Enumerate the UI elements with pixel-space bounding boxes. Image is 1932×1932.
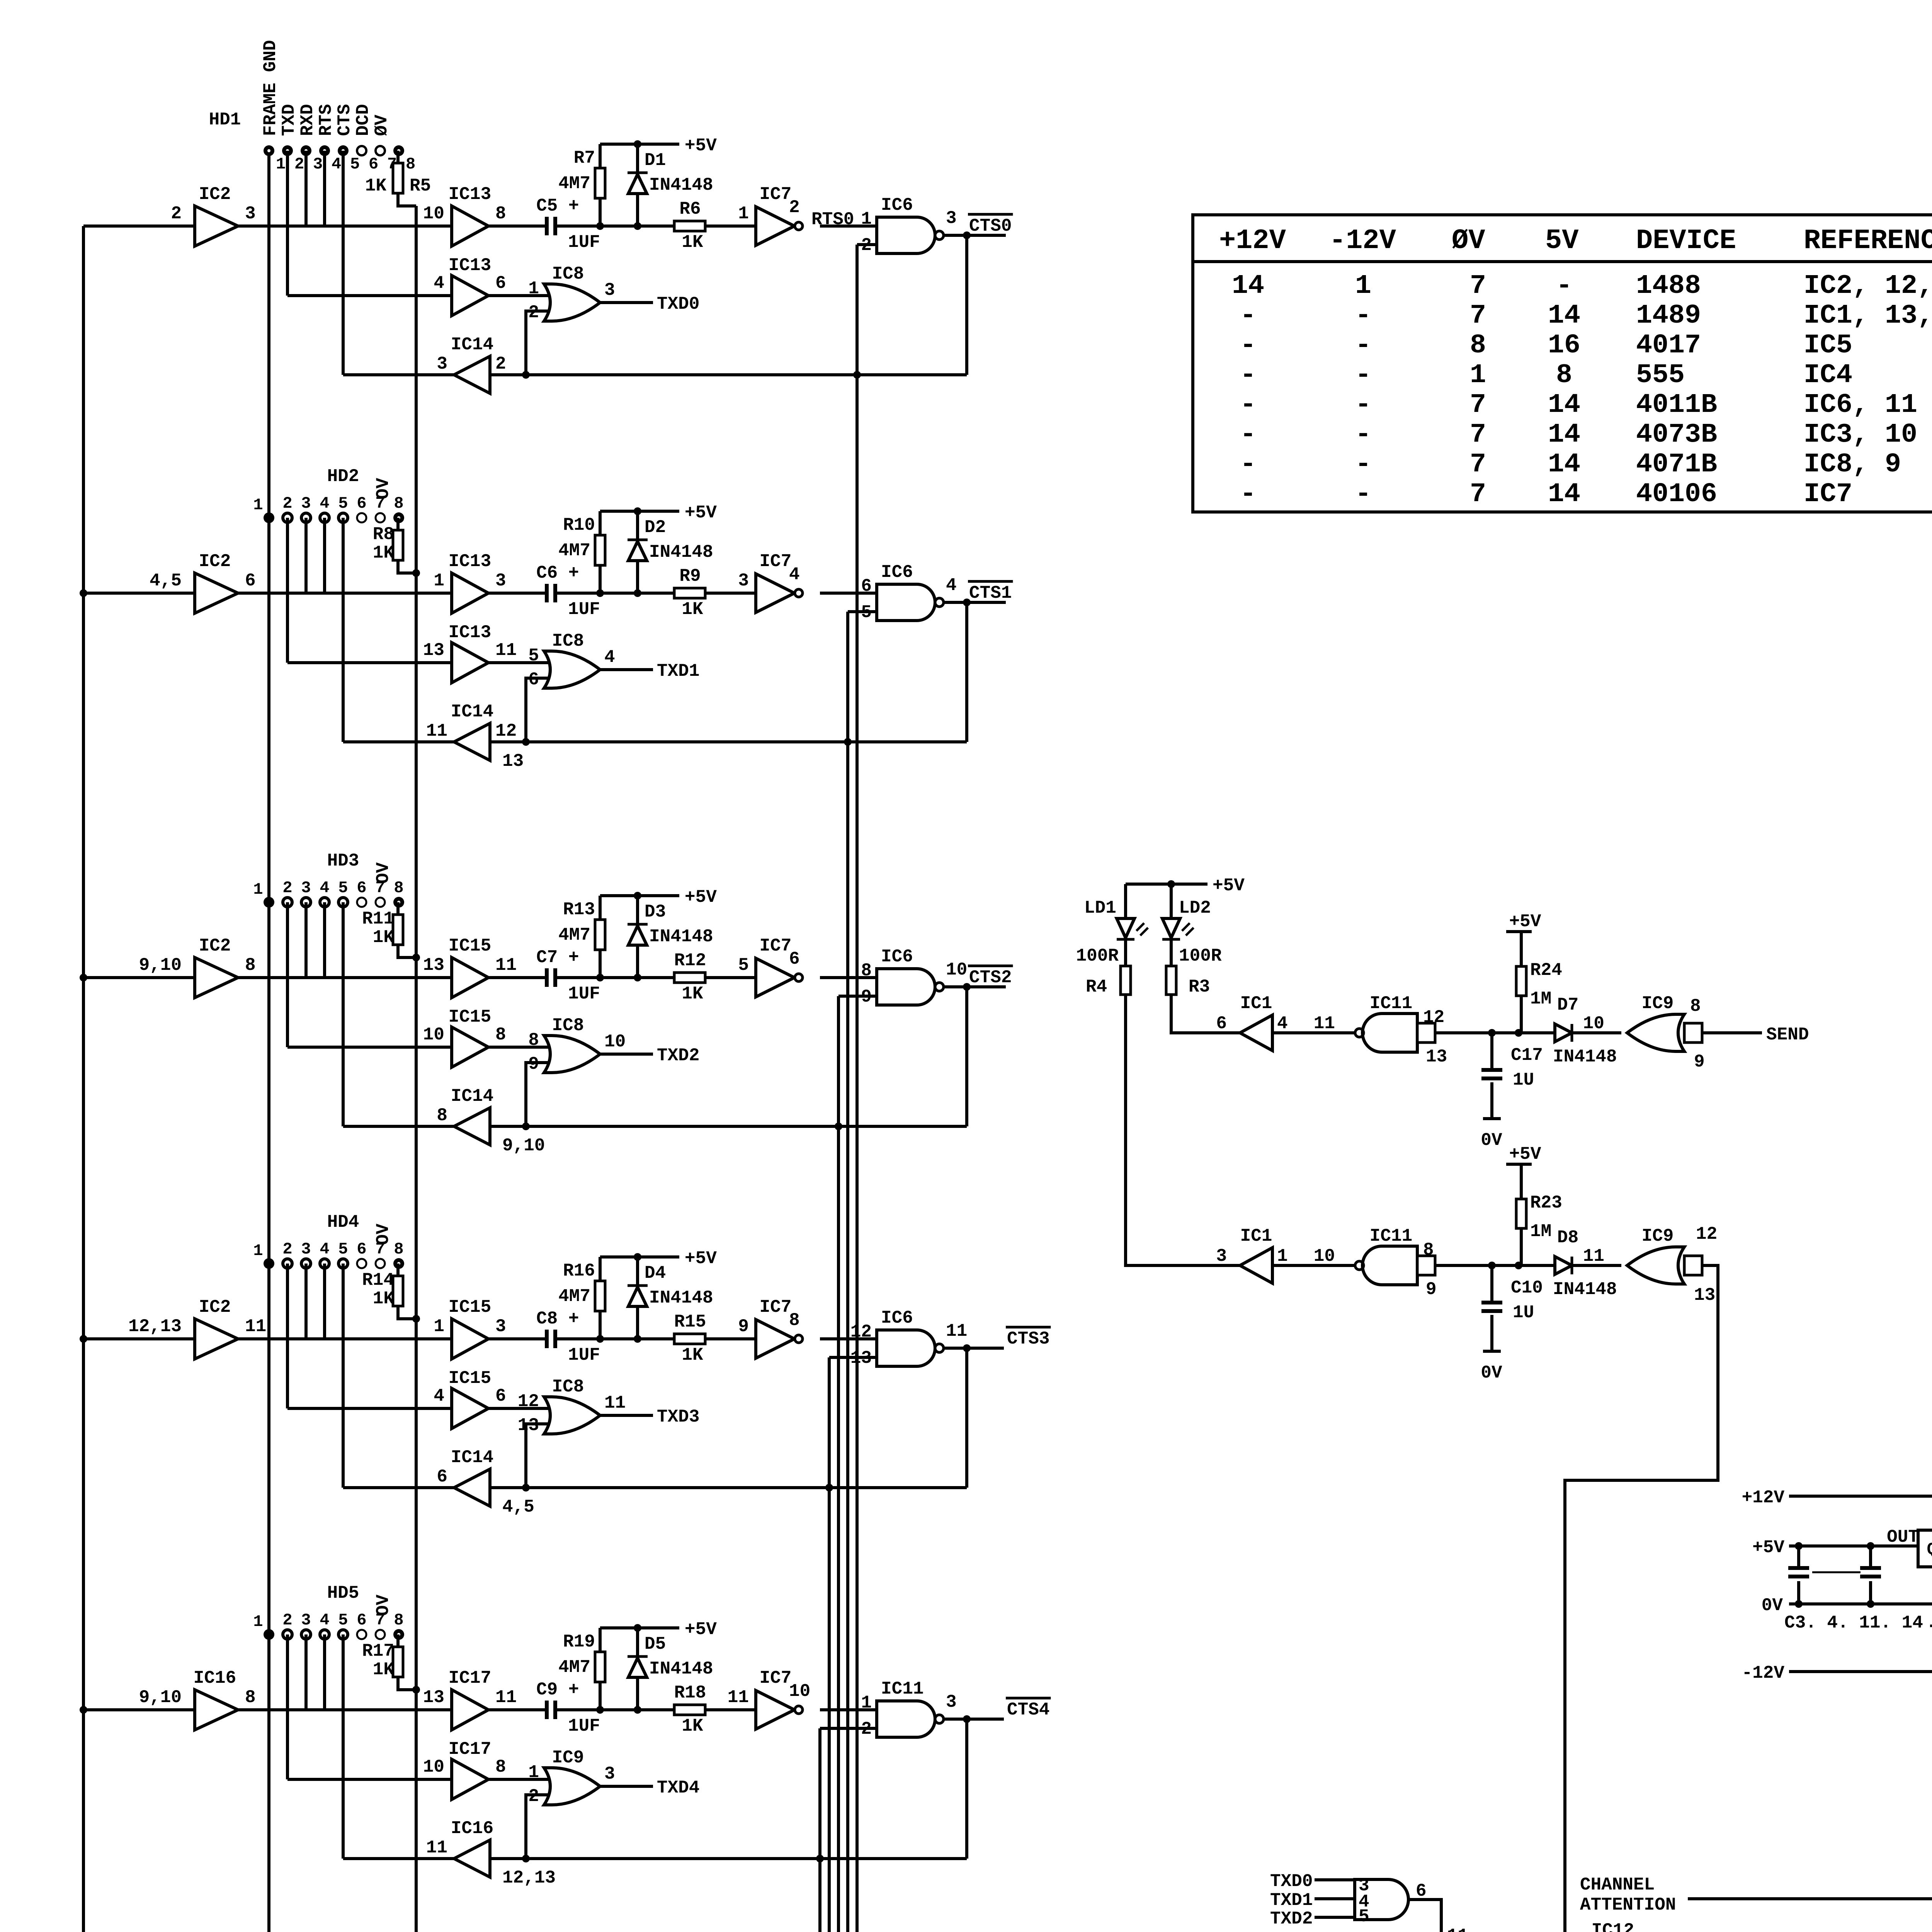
svg-text:+12V: +12V bbox=[1742, 1488, 1785, 1508]
svg-text:6: 6 bbox=[495, 273, 506, 293]
svg-text:D8: D8 bbox=[1557, 1228, 1578, 1248]
svg-text:100R: 100R bbox=[1179, 946, 1222, 966]
svg-text:IC17: IC17 bbox=[449, 1739, 491, 1759]
svg-text:3: 3 bbox=[1216, 1246, 1227, 1266]
svg-text:D2: D2 bbox=[645, 517, 666, 537]
svg-text:IC14: IC14 bbox=[451, 1086, 493, 1106]
svg-text:13: 13 bbox=[1694, 1285, 1715, 1305]
svg-text:R7: R7 bbox=[574, 148, 595, 168]
svg-text:9: 9 bbox=[1426, 1279, 1437, 1299]
svg-text:ØV: ØV bbox=[1452, 225, 1485, 257]
svg-text:1: 1 bbox=[1355, 271, 1371, 301]
svg-text:+5V: +5V bbox=[685, 1248, 717, 1269]
svg-text:R14: R14 bbox=[362, 1270, 394, 1290]
svg-text:+12V: +12V bbox=[1219, 225, 1286, 257]
svg-text:8: 8 bbox=[861, 961, 872, 981]
svg-text:LD1: LD1 bbox=[1084, 898, 1116, 918]
svg-text:IC3, 10: IC3, 10 bbox=[1804, 420, 1917, 450]
svg-text:11: 11 bbox=[728, 1687, 749, 1708]
svg-text:8: 8 bbox=[394, 494, 403, 513]
svg-text:HD1: HD1 bbox=[209, 110, 241, 130]
svg-text:-: - bbox=[1556, 271, 1572, 301]
svg-text:4073B: 4073B bbox=[1636, 420, 1717, 450]
svg-text:OUT: OUT bbox=[1887, 1527, 1919, 1547]
svg-text:DCD: DCD bbox=[353, 104, 373, 136]
svg-text:12: 12 bbox=[495, 721, 517, 741]
svg-text:4M7: 4M7 bbox=[558, 1286, 590, 1306]
svg-text:IC15: IC15 bbox=[449, 1297, 491, 1317]
svg-text:3: 3 bbox=[495, 1316, 506, 1337]
svg-text:5: 5 bbox=[338, 494, 348, 513]
svg-text:ØV: ØV bbox=[372, 114, 392, 136]
svg-text:2: 2 bbox=[282, 494, 292, 513]
svg-text:IC9: IC9 bbox=[1642, 993, 1674, 1014]
svg-text:TXD0: TXD0 bbox=[1270, 1871, 1313, 1891]
svg-text:1K: 1K bbox=[373, 1660, 395, 1680]
svg-text:3: 3 bbox=[301, 879, 311, 897]
svg-text:TXD2: TXD2 bbox=[657, 1046, 699, 1066]
svg-text:TXD3: TXD3 bbox=[657, 1407, 699, 1427]
svg-text:4: 4 bbox=[789, 565, 800, 585]
svg-text:IC16: IC16 bbox=[194, 1668, 236, 1688]
svg-text:6: 6 bbox=[357, 1240, 366, 1259]
svg-text:4: 4 bbox=[332, 155, 341, 173]
svg-text:R4: R4 bbox=[1086, 977, 1107, 997]
svg-text:2: 2 bbox=[282, 1611, 292, 1629]
svg-text:IC7: IC7 bbox=[760, 1297, 792, 1317]
svg-text:ATTENTION: ATTENTION bbox=[1580, 1895, 1676, 1915]
svg-text:1: 1 bbox=[861, 209, 872, 229]
svg-text:6: 6 bbox=[369, 155, 378, 173]
svg-text:8: 8 bbox=[394, 1611, 403, 1629]
svg-text:IC17: IC17 bbox=[449, 1668, 491, 1688]
svg-text:1: 1 bbox=[1470, 360, 1486, 391]
svg-text:R24: R24 bbox=[1530, 960, 1562, 980]
svg-text:R19: R19 bbox=[563, 1632, 595, 1652]
svg-text:8: 8 bbox=[1556, 360, 1572, 391]
svg-text:12: 12 bbox=[1696, 1224, 1717, 1244]
svg-text:7: 7 bbox=[1470, 301, 1486, 331]
svg-text:IC13: IC13 bbox=[449, 184, 491, 204]
svg-text:1: 1 bbox=[253, 880, 263, 899]
svg-text:7: 7 bbox=[1470, 271, 1486, 301]
svg-text:1UF: 1UF bbox=[568, 599, 600, 619]
svg-text:2: 2 bbox=[282, 1240, 292, 1259]
svg-text:SEND: SEND bbox=[1766, 1025, 1809, 1045]
svg-text:5: 5 bbox=[1359, 1906, 1369, 1927]
svg-text:10: 10 bbox=[789, 1681, 810, 1701]
svg-text:3: 3 bbox=[738, 571, 749, 591]
svg-text:1: 1 bbox=[253, 1242, 263, 1260]
svg-text:5: 5 bbox=[738, 955, 749, 975]
svg-text:11: 11 bbox=[1583, 1246, 1604, 1266]
svg-text:DEVICE: DEVICE bbox=[1636, 225, 1736, 257]
svg-text:1: 1 bbox=[1277, 1246, 1288, 1266]
svg-text:C8 +: C8 + bbox=[536, 1309, 579, 1329]
svg-text:IC8, 9: IC8, 9 bbox=[1804, 449, 1901, 480]
svg-text:D3: D3 bbox=[645, 902, 666, 922]
svg-text:R11: R11 bbox=[362, 909, 394, 929]
svg-text:IC6: IC6 bbox=[881, 562, 913, 582]
svg-text:REFERENCE: REFERENCE bbox=[1804, 225, 1932, 257]
svg-text:+5V: +5V bbox=[1752, 1537, 1784, 1558]
svg-text:4: 4 bbox=[320, 879, 329, 897]
svg-text:-: - bbox=[1240, 479, 1256, 510]
svg-text:4,5: 4,5 bbox=[502, 1497, 534, 1517]
svg-text:1K: 1K bbox=[373, 1289, 395, 1309]
svg-text:1M: 1M bbox=[1530, 1221, 1551, 1242]
svg-text:R17: R17 bbox=[362, 1641, 394, 1661]
svg-text:7: 7 bbox=[1470, 449, 1486, 480]
svg-text:9,10: 9,10 bbox=[139, 955, 182, 975]
svg-text:R18: R18 bbox=[674, 1683, 706, 1703]
svg-text:C9 +: C9 + bbox=[536, 1680, 579, 1700]
svg-text:IC12: IC12 bbox=[1592, 1920, 1634, 1932]
svg-text:5: 5 bbox=[338, 1611, 348, 1629]
svg-text:1M: 1M bbox=[1530, 989, 1551, 1009]
svg-text:2: 2 bbox=[171, 204, 182, 224]
svg-text:10: 10 bbox=[604, 1032, 626, 1052]
svg-text:3: 3 bbox=[946, 208, 957, 228]
svg-text:-: - bbox=[1240, 420, 1256, 450]
svg-text:D4: D4 bbox=[645, 1263, 666, 1283]
svg-text:1: 1 bbox=[738, 204, 749, 224]
svg-text:IN4148: IN4148 bbox=[1553, 1279, 1617, 1299]
svg-text:100R: 100R bbox=[1076, 946, 1119, 966]
svg-text:8: 8 bbox=[789, 1310, 800, 1330]
svg-text:4: 4 bbox=[320, 1240, 329, 1259]
svg-text:D1: D1 bbox=[645, 150, 666, 170]
svg-text:6: 6 bbox=[357, 494, 366, 513]
svg-text:CTS4: CTS4 bbox=[1007, 1700, 1049, 1720]
svg-text:+: + bbox=[1929, 1615, 1932, 1641]
svg-text:6: 6 bbox=[357, 879, 366, 897]
svg-text:TXD2: TXD2 bbox=[1270, 1909, 1313, 1929]
svg-text:IC11: IC11 bbox=[1370, 993, 1412, 1014]
svg-text:TXD: TXD bbox=[279, 104, 299, 136]
svg-text:11: 11 bbox=[426, 721, 447, 741]
svg-text:4M7: 4M7 bbox=[558, 1657, 590, 1677]
svg-text:1K: 1K bbox=[682, 599, 703, 619]
svg-text:6: 6 bbox=[357, 1611, 366, 1629]
svg-text:1: 1 bbox=[528, 279, 539, 299]
svg-text:1K: 1K bbox=[365, 176, 387, 196]
svg-text:CTS3: CTS3 bbox=[1007, 1329, 1049, 1349]
svg-text:8: 8 bbox=[1470, 330, 1486, 361]
svg-text:13: 13 bbox=[423, 955, 444, 975]
svg-text:3: 3 bbox=[495, 571, 506, 591]
svg-text:13: 13 bbox=[1426, 1047, 1447, 1067]
svg-text:3: 3 bbox=[604, 1764, 615, 1784]
svg-text:IC2: IC2 bbox=[199, 1297, 231, 1317]
svg-text:12: 12 bbox=[1423, 1007, 1444, 1027]
svg-text:14: 14 bbox=[1548, 420, 1580, 450]
svg-text:4: 4 bbox=[1277, 1014, 1288, 1034]
svg-text:6: 6 bbox=[861, 576, 872, 596]
svg-text:IC6: IC6 bbox=[881, 1308, 913, 1328]
svg-text:IC2: IC2 bbox=[199, 936, 231, 956]
svg-text:1: 1 bbox=[253, 1612, 263, 1631]
svg-text:IC7: IC7 bbox=[760, 184, 792, 204]
svg-text:R23: R23 bbox=[1530, 1193, 1562, 1213]
svg-text:16: 16 bbox=[1548, 330, 1580, 361]
svg-text:14: 14 bbox=[1548, 390, 1580, 420]
svg-text:IC6: IC6 bbox=[881, 195, 913, 215]
svg-text:6: 6 bbox=[437, 1467, 447, 1487]
svg-text:R8: R8 bbox=[373, 524, 394, 544]
svg-text:1K: 1K bbox=[682, 1345, 703, 1365]
svg-text:4M7: 4M7 bbox=[558, 925, 590, 945]
svg-text:C5 +: C5 + bbox=[536, 196, 579, 216]
svg-text:IC4: IC4 bbox=[1804, 360, 1852, 391]
svg-text:TXD1: TXD1 bbox=[1270, 1890, 1313, 1910]
svg-text:9: 9 bbox=[1694, 1052, 1705, 1072]
svg-text:7: 7 bbox=[1470, 420, 1486, 450]
svg-text:IC14: IC14 bbox=[451, 702, 493, 722]
svg-text:5: 5 bbox=[338, 879, 348, 897]
svg-text:+5V: +5V bbox=[1213, 876, 1245, 896]
svg-text:11: 11 bbox=[1447, 1926, 1468, 1932]
svg-text:8: 8 bbox=[406, 155, 415, 173]
svg-text:8: 8 bbox=[245, 955, 256, 975]
svg-text:1: 1 bbox=[253, 496, 263, 514]
svg-text:3: 3 bbox=[301, 1240, 311, 1259]
svg-text:4,5: 4,5 bbox=[150, 571, 182, 591]
svg-text:14: 14 bbox=[1548, 479, 1580, 510]
svg-text:IC9: IC9 bbox=[1642, 1226, 1674, 1246]
svg-text:HD3: HD3 bbox=[327, 851, 359, 871]
svg-text:3: 3 bbox=[245, 204, 256, 224]
svg-text:10: 10 bbox=[423, 204, 444, 224]
svg-text:+5V: +5V bbox=[1509, 1144, 1541, 1164]
svg-text:OV: OV bbox=[373, 1223, 393, 1245]
svg-text:1K: 1K bbox=[682, 1716, 703, 1736]
svg-text:13: 13 bbox=[423, 640, 444, 660]
svg-text:IC9: IC9 bbox=[552, 1748, 584, 1768]
svg-text:IN4148: IN4148 bbox=[649, 927, 713, 947]
svg-text:IN4148: IN4148 bbox=[649, 175, 713, 195]
svg-text:2: 2 bbox=[789, 197, 800, 218]
svg-text:TXD1: TXD1 bbox=[657, 661, 699, 681]
svg-text:+5V: +5V bbox=[1509, 912, 1541, 932]
svg-text:CTS2: CTS2 bbox=[969, 968, 1012, 988]
svg-text:10: 10 bbox=[423, 1025, 444, 1045]
svg-text:IC7: IC7 bbox=[760, 936, 792, 956]
svg-text:4: 4 bbox=[434, 1386, 444, 1406]
svg-text:FRAME GND: FRAME GND bbox=[260, 40, 281, 136]
svg-text:R15: R15 bbox=[674, 1312, 706, 1332]
svg-text:8: 8 bbox=[437, 1105, 447, 1126]
svg-text:1: 1 bbox=[434, 571, 444, 591]
svg-text:IC8: IC8 bbox=[552, 1015, 584, 1036]
svg-text:R5: R5 bbox=[410, 176, 431, 196]
svg-text:1: 1 bbox=[528, 1762, 539, 1782]
svg-text:11: 11 bbox=[1314, 1014, 1335, 1034]
svg-text:-: - bbox=[1240, 301, 1256, 331]
svg-text:TXD4: TXD4 bbox=[657, 1778, 699, 1798]
svg-text:6: 6 bbox=[789, 949, 800, 969]
svg-text:2: 2 bbox=[294, 155, 304, 173]
svg-text:TXD0: TXD0 bbox=[657, 294, 699, 314]
svg-text:+5V: +5V bbox=[685, 503, 717, 523]
svg-text:12,13: 12,13 bbox=[128, 1316, 182, 1337]
svg-text:1K: 1K bbox=[682, 984, 703, 1004]
svg-text:-: - bbox=[1355, 449, 1371, 480]
svg-text:-: - bbox=[1240, 360, 1256, 391]
svg-text:8: 8 bbox=[495, 1025, 506, 1045]
svg-text:1UF: 1UF bbox=[568, 1716, 600, 1736]
svg-text:8: 8 bbox=[1690, 996, 1701, 1016]
svg-text:R16: R16 bbox=[563, 1261, 595, 1281]
svg-text:3: 3 bbox=[301, 494, 311, 513]
svg-text:IC2: IC2 bbox=[199, 184, 231, 204]
svg-text:1UF: 1UF bbox=[568, 1345, 600, 1365]
svg-text:8: 8 bbox=[394, 879, 403, 897]
svg-text:D7: D7 bbox=[1557, 995, 1578, 1015]
svg-text:IC1: IC1 bbox=[1240, 1226, 1272, 1246]
svg-text:-: - bbox=[1240, 449, 1256, 480]
svg-text:R9: R9 bbox=[679, 566, 701, 586]
svg-text:CTS0: CTS0 bbox=[969, 216, 1012, 236]
svg-text:4017: 4017 bbox=[1636, 330, 1701, 361]
svg-text:OV: OV bbox=[373, 478, 393, 499]
svg-text:8: 8 bbox=[495, 204, 506, 224]
svg-text:IN4148: IN4148 bbox=[649, 1288, 713, 1308]
svg-text:3: 3 bbox=[946, 1692, 957, 1712]
svg-text:-: - bbox=[1355, 301, 1371, 331]
svg-text:-: - bbox=[1355, 390, 1371, 420]
svg-text:1488: 1488 bbox=[1636, 271, 1701, 301]
svg-text:+5V: +5V bbox=[685, 136, 717, 156]
svg-text:IC6, 11: IC6, 11 bbox=[1804, 390, 1917, 420]
svg-text:4M7: 4M7 bbox=[558, 541, 590, 561]
svg-text:HD2: HD2 bbox=[327, 466, 359, 486]
svg-text:11: 11 bbox=[604, 1393, 626, 1413]
svg-text:1UF: 1UF bbox=[568, 984, 600, 1004]
svg-text:9,10: 9,10 bbox=[139, 1687, 182, 1708]
svg-text:CTS1: CTS1 bbox=[969, 583, 1012, 603]
svg-text:IN4148: IN4148 bbox=[649, 542, 713, 562]
svg-text:8: 8 bbox=[394, 1240, 403, 1259]
svg-text:5V: 5V bbox=[1545, 225, 1579, 257]
svg-text:10: 10 bbox=[946, 960, 967, 980]
svg-text:D5: D5 bbox=[645, 1634, 666, 1654]
svg-text:9: 9 bbox=[738, 1316, 749, 1337]
svg-text:IC13: IC13 bbox=[449, 255, 491, 276]
svg-text:IC7: IC7 bbox=[760, 551, 792, 571]
svg-text:0V: 0V bbox=[1481, 1363, 1502, 1383]
svg-text:IC14: IC14 bbox=[451, 1447, 493, 1468]
svg-text:11: 11 bbox=[946, 1321, 967, 1341]
svg-text:14: 14 bbox=[1232, 271, 1264, 301]
svg-text:6: 6 bbox=[1216, 1014, 1227, 1034]
svg-text:9,10: 9,10 bbox=[502, 1136, 545, 1156]
svg-text:4: 4 bbox=[604, 647, 615, 667]
svg-text:3: 3 bbox=[437, 354, 447, 374]
svg-text:4: 4 bbox=[946, 575, 957, 595]
svg-text:1489: 1489 bbox=[1636, 301, 1701, 331]
svg-text:4011B: 4011B bbox=[1636, 390, 1717, 420]
svg-text:10: 10 bbox=[423, 1757, 444, 1777]
svg-text:+5V: +5V bbox=[685, 1619, 717, 1639]
svg-text:C7 +: C7 + bbox=[536, 947, 579, 968]
svg-text:HD4: HD4 bbox=[327, 1212, 359, 1232]
svg-text:-: - bbox=[1355, 420, 1371, 450]
svg-text:5: 5 bbox=[338, 1240, 348, 1259]
svg-text:R3: R3 bbox=[1189, 977, 1210, 997]
svg-text:-: - bbox=[1240, 330, 1256, 361]
svg-text:IC2: IC2 bbox=[199, 551, 231, 571]
svg-text:IC2, 12, 14, 16: IC2, 12, 14, 16 bbox=[1804, 271, 1932, 301]
svg-text:IC5: IC5 bbox=[1804, 330, 1852, 361]
svg-text:-: - bbox=[1355, 479, 1371, 510]
svg-text:14: 14 bbox=[1548, 449, 1580, 480]
svg-text:HD5: HD5 bbox=[327, 1583, 359, 1603]
svg-text:13: 13 bbox=[423, 1687, 444, 1708]
svg-text:1: 1 bbox=[434, 1316, 444, 1337]
svg-text:8: 8 bbox=[245, 1687, 256, 1708]
svg-text:C17: C17 bbox=[1511, 1045, 1543, 1065]
svg-text:OV: OV bbox=[373, 862, 393, 884]
svg-text:2: 2 bbox=[282, 879, 292, 897]
svg-text:OV: OV bbox=[373, 1594, 393, 1616]
svg-text:-12V: -12V bbox=[1742, 1663, 1785, 1683]
svg-text:CTS: CTS bbox=[335, 104, 355, 136]
svg-text:IC15: IC15 bbox=[449, 1007, 491, 1027]
svg-text:IN4148: IN4148 bbox=[649, 1659, 713, 1679]
svg-text:LD2: LD2 bbox=[1179, 898, 1211, 918]
svg-text:1U: 1U bbox=[1513, 1070, 1534, 1090]
svg-text:RXD: RXD bbox=[298, 104, 318, 136]
svg-text:4: 4 bbox=[434, 273, 444, 293]
svg-text:IC13: IC13 bbox=[449, 622, 491, 643]
svg-text:IC15: IC15 bbox=[449, 936, 491, 956]
svg-text:IC8: IC8 bbox=[552, 1377, 584, 1397]
svg-text:R12: R12 bbox=[674, 951, 706, 971]
svg-text:1K: 1K bbox=[373, 543, 395, 563]
svg-text:4M7: 4M7 bbox=[558, 173, 590, 194]
svg-text:1K: 1K bbox=[682, 232, 703, 252]
svg-text:8: 8 bbox=[495, 1757, 506, 1777]
svg-text:11: 11 bbox=[426, 1838, 447, 1858]
svg-text:-12V: -12V bbox=[1329, 225, 1396, 257]
svg-text:6: 6 bbox=[245, 571, 256, 591]
svg-text:1: 1 bbox=[861, 1693, 872, 1713]
svg-text:R10: R10 bbox=[563, 515, 595, 535]
svg-text:3: 3 bbox=[604, 280, 615, 300]
svg-text:1U: 1U bbox=[1513, 1303, 1534, 1323]
svg-text:C10: C10 bbox=[1511, 1278, 1543, 1298]
svg-text:R13: R13 bbox=[563, 900, 595, 920]
svg-text:4: 4 bbox=[320, 1611, 329, 1629]
svg-text:IC11: IC11 bbox=[881, 1679, 923, 1699]
svg-text:IC8: IC8 bbox=[552, 264, 584, 284]
svg-text:IC1, 13, 15, 17: IC1, 13, 15, 17 bbox=[1804, 301, 1932, 331]
svg-text:IC7: IC7 bbox=[1804, 479, 1852, 510]
svg-text:7: 7 bbox=[1470, 390, 1486, 420]
svg-text:7: 7 bbox=[1470, 479, 1486, 510]
svg-text:CHANNEL: CHANNEL bbox=[1580, 1875, 1655, 1895]
svg-text:R6: R6 bbox=[679, 199, 701, 219]
svg-text:40106: 40106 bbox=[1636, 479, 1717, 510]
svg-text:8: 8 bbox=[1423, 1240, 1434, 1260]
svg-text:4: 4 bbox=[320, 494, 329, 513]
svg-text:-: - bbox=[1355, 360, 1371, 391]
svg-text:IN4148: IN4148 bbox=[1553, 1047, 1617, 1067]
svg-text:12: 12 bbox=[518, 1391, 539, 1412]
svg-text:11: 11 bbox=[495, 640, 517, 660]
svg-text:11: 11 bbox=[495, 955, 517, 975]
